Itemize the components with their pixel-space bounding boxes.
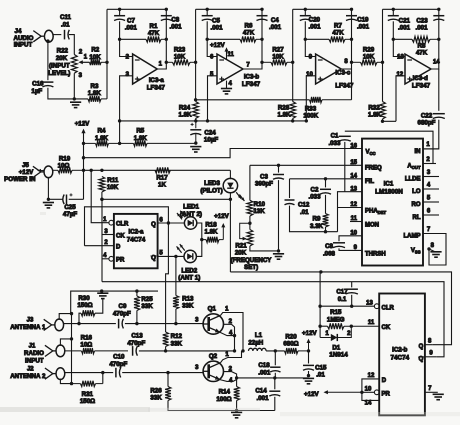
wire stage2 output jog <box>243 9 262 69</box>
jack J5 power in <box>33 166 53 178</box>
junction Q2 emitter <box>235 376 238 379</box>
wire PR pin10 <box>362 391 374 393</box>
wire to C25 <box>48 198 63 200</box>
junction PR bracket <box>360 391 363 394</box>
junction Q1e radio row <box>233 349 236 352</box>
junction +12V R4 <box>82 142 85 145</box>
svg-text:C7: C7 <box>127 18 135 25</box>
wire C11 to R22 top <box>69 35 74 55</box>
capacitor C18 <box>270 367 280 372</box>
stub pin 11 <box>350 221 362 223</box>
wire line-b PR to Qbar-b <box>102 282 444 357</box>
junction R25 top <box>135 289 138 292</box>
junction R33 row left <box>194 98 197 101</box>
wire pin5 to bias rail <box>208 76 218 121</box>
capacitor C4 <box>257 16 268 21</box>
svg-text:IC3-b: IC3-b <box>244 73 260 80</box>
wire R13 bottom <box>175 309 177 324</box>
capacitor C8 thrsh <box>333 243 345 248</box>
wire emitter row <box>237 377 309 379</box>
wire J3 sleeve <box>59 314 71 320</box>
svg-text:C1: C1 <box>331 133 339 140</box>
wire Q1 emitter stub2 <box>223 324 234 335</box>
svg-text:1.8K: 1.8K <box>204 229 218 236</box>
arrow into J5 <box>37 169 44 172</box>
wire Q1 collector <box>221 313 244 351</box>
svg-text:R10: R10 <box>254 201 266 208</box>
resistor R15 <box>328 323 380 329</box>
node stage1 output <box>165 61 168 64</box>
stub pin6 <box>423 214 439 216</box>
svg-text:11: 11 <box>351 216 358 222</box>
svg-text:680pF: 680pF <box>418 120 436 127</box>
wire stage3 output jog <box>341 9 351 69</box>
resistor R32 <box>380 102 386 120</box>
svg-text:10K: 10K <box>272 54 284 61</box>
svg-text:RO: RO <box>412 202 421 208</box>
capacitor C11 <box>65 30 70 40</box>
svg-text:C13: C13 <box>131 333 143 340</box>
svg-text:16: 16 <box>350 143 357 149</box>
svg-text:R29: R29 <box>363 47 375 54</box>
potentiometer R21 <box>247 230 253 247</box>
wire C16 to ground row <box>48 88 88 99</box>
junction network bottom <box>324 230 327 233</box>
junction collectors radio row <box>241 349 244 352</box>
wire stage3 feedback rail <box>305 38 329 40</box>
resistor R4 <box>84 141 120 147</box>
wire D feedback path <box>85 207 169 246</box>
svg-text:R31: R31 <box>82 391 94 398</box>
ground at IC1 pin 8 <box>429 249 435 252</box>
wire R33 row <box>196 99 310 101</box>
svg-text:1MEG: 1MEG <box>327 316 345 323</box>
power arrow +12V main <box>81 129 85 144</box>
svg-text:.033: .033 <box>308 194 321 201</box>
junction R26 top <box>166 371 169 374</box>
resistor R6 <box>240 36 262 42</box>
capacitor C13 <box>133 346 138 356</box>
wire pin3 to bias column <box>120 76 133 144</box>
svg-text:IC3-d: IC3-d <box>413 75 429 82</box>
junction J1 sleeve bus <box>70 337 73 340</box>
wire C20 to feedback rail <box>304 21 306 39</box>
resistor R28 <box>290 102 296 119</box>
wire R32 bottom jog <box>383 119 397 121</box>
wire C3 lower <box>278 180 280 251</box>
svg-text:R19: R19 <box>59 155 71 162</box>
node stage3 input <box>291 61 294 64</box>
svg-text:D: D <box>382 378 387 384</box>
svg-text:FREQ: FREQ <box>365 165 382 171</box>
wire ant2 row to Q2 <box>122 372 203 374</box>
junction pin8 Vss <box>427 247 430 250</box>
wire to pin9 <box>305 39 315 56</box>
svg-text:.001: .001 <box>308 24 321 31</box>
svg-text:R22: R22 <box>57 48 69 55</box>
svg-text:33K: 33K <box>182 303 194 310</box>
wire C2 to R9 <box>325 195 327 214</box>
svg-text:10K: 10K <box>107 184 119 191</box>
svg-text:15: 15 <box>350 160 357 166</box>
svg-text:PR: PR <box>382 392 391 398</box>
svg-text:1N914: 1N914 <box>329 352 348 359</box>
wire ground line <box>71 291 158 314</box>
svg-text:R1: R1 <box>150 23 158 30</box>
stub Q pin8 <box>425 344 433 346</box>
junction stage2 inverting node <box>206 38 209 41</box>
transistor Q1 <box>203 314 223 334</box>
svg-text:C22: C22 <box>421 113 433 120</box>
wire stage4 top rail <box>383 8 439 10</box>
wire radio row mid <box>139 350 235 352</box>
wire stage1 output jog <box>157 9 166 69</box>
svg-text:R27: R27 <box>272 47 284 54</box>
wire Q column to R12 <box>166 223 169 332</box>
junction R1 output end <box>165 38 168 41</box>
svg-text:R25: R25 <box>141 296 153 303</box>
wire stage1 feedback rail <box>120 38 146 40</box>
wire to pin13 <box>393 39 405 56</box>
wire CK-b row <box>320 325 327 327</box>
node stage4 input <box>381 61 384 64</box>
svg-text:47K: 47K <box>148 30 160 37</box>
svg-text:470pF: 470pF <box>113 311 131 318</box>
svg-text:13K: 13K <box>253 208 265 215</box>
stub pin3 <box>423 176 439 178</box>
svg-text:IC2-b: IC2-b <box>392 346 408 353</box>
wire line-a to Q8 wrap <box>230 272 451 345</box>
svg-text:R17: R17 <box>156 175 168 182</box>
svg-text:R4: R4 <box>98 128 106 135</box>
arrow +12V into PR line <box>324 390 362 394</box>
svg-text:Q1: Q1 <box>208 305 217 312</box>
wire C3 upper <box>278 165 280 172</box>
wire R14 to rail <box>236 401 238 411</box>
junction FIL C2 top <box>324 177 327 180</box>
wire R11 bottom <box>101 192 103 199</box>
svg-text:.001: .001 <box>125 25 138 32</box>
svg-text:10: 10 <box>306 72 313 78</box>
junction C19 top <box>350 8 353 11</box>
svg-text:(PILOT): (PILOT) <box>200 188 222 195</box>
wire R12 bottom <box>165 347 167 351</box>
svg-text:R23: R23 <box>174 47 186 54</box>
svg-text:R11: R11 <box>107 177 119 184</box>
LED2 ant1 <box>184 250 197 262</box>
svg-text:1.8K: 1.8K <box>368 112 382 119</box>
bubble CLR IC2-b <box>374 304 379 309</box>
junction line-a CLR network <box>319 270 322 273</box>
stub pin1 IN <box>423 148 439 150</box>
capacitor C7 <box>114 16 125 21</box>
wire C21 column upper <box>392 9 394 15</box>
junction bias rail C24 <box>194 119 197 122</box>
resistor R30 <box>81 310 95 316</box>
IC U2a 74C74 box <box>114 214 158 268</box>
resistor R31 <box>72 381 103 387</box>
svg-text:R2: R2 <box>91 47 99 54</box>
wire stage1 input column <box>106 9 108 99</box>
capacitor C8 <box>161 16 172 21</box>
ground bottom rail <box>231 412 242 417</box>
junction R6 output end <box>260 38 263 41</box>
svg-text:680Ω: 680Ω <box>283 341 298 348</box>
capacitor C25 polarized <box>63 193 73 204</box>
wire FREQ corner to R10 <box>249 165 251 200</box>
svg-text:1K: 1K <box>158 182 166 189</box>
svg-text:R26: R26 <box>150 387 162 394</box>
svg-text:R21: R21 <box>235 243 247 250</box>
junction LED R18 <box>200 238 203 241</box>
wire output to C22 <box>438 69 440 111</box>
svg-text:THRSH: THRSH <box>365 252 386 258</box>
svg-text:+12V: +12V <box>214 213 229 220</box>
wire Q1 emitter down <box>234 336 236 351</box>
svg-text:R5: R5 <box>136 128 144 135</box>
wire FREQ pin15 <box>250 164 362 166</box>
wire D pin2 <box>85 245 114 247</box>
svg-text:R30: R30 <box>78 295 90 302</box>
jack J3 antenna1 <box>44 319 64 331</box>
junction stage1 inverting node <box>118 38 121 41</box>
svg-text:CLR: CLR <box>382 306 395 312</box>
resistor R26 <box>165 387 171 401</box>
power arrow +12V R18 <box>221 223 225 240</box>
wire J4 sleeve to C16 <box>47 41 49 80</box>
capacitor C1 <box>339 136 351 141</box>
capacitor C12 <box>285 200 295 205</box>
wire C21 to feedback rail <box>392 21 394 39</box>
svg-text:150Ω: 150Ω <box>77 302 92 309</box>
wire ant1 row <box>64 323 116 325</box>
junction C18 top <box>274 349 277 352</box>
wire J1 sleeve <box>60 339 71 346</box>
op-amp IC3-a <box>133 54 158 84</box>
svg-text:J3: J3 <box>27 318 34 324</box>
wire Q2 emitter stub4 <box>220 380 237 382</box>
junction LED3 line-a <box>229 198 232 201</box>
svg-text:47K: 47K <box>243 30 255 37</box>
node stage2 input <box>194 61 197 64</box>
resistor R8 <box>412 36 439 42</box>
svg-text:100Ω: 100Ω <box>216 396 231 403</box>
wire R26 upper <box>167 373 169 387</box>
svg-text:13: 13 <box>366 300 373 306</box>
wire R26 to ground rail <box>168 401 275 411</box>
junction R14 ground rail <box>235 409 238 412</box>
wire C17 upper <box>351 282 353 288</box>
svg-text:Q: Q <box>151 222 156 228</box>
wire Q2 emitter down <box>236 378 238 387</box>
wire R30 left leg <box>79 313 81 323</box>
svg-text:74C74: 74C74 <box>127 236 146 243</box>
junction rail170 CLR drop <box>90 169 93 172</box>
wire pin10 to C8 <box>339 236 362 241</box>
capacitor C2 <box>320 189 331 194</box>
stub pin4 <box>423 188 439 190</box>
svg-text:C25: C25 <box>64 204 76 211</box>
junction C23 top <box>437 8 440 11</box>
svg-text:LO: LO <box>412 189 421 195</box>
ground under C15 <box>303 378 314 383</box>
wire Q1 emitter stub4 <box>220 332 235 335</box>
wire C17 lower <box>351 295 353 306</box>
junction Qbar R13 <box>174 255 177 258</box>
svg-text:Q2: Q2 <box>209 353 218 360</box>
wire C22 to IN pin <box>423 120 439 149</box>
wire C12 left column <box>289 179 291 198</box>
svg-text:MON: MON <box>365 223 379 229</box>
svg-text:LM1800N: LM1800N <box>375 189 403 196</box>
svg-text:C15: C15 <box>315 364 327 371</box>
svg-text:IC2-a: IC2-a <box>129 228 145 235</box>
wire CLR drop <box>91 170 109 222</box>
svg-text:C12: C12 <box>298 202 310 209</box>
wiper arrow R22 <box>78 60 89 64</box>
svg-text:PR: PR <box>116 258 125 264</box>
junction bias rail R28 <box>291 119 294 122</box>
wire R22 bottom to ground row <box>73 73 75 99</box>
wire C7 column upper <box>119 9 121 15</box>
svg-text:.001: .001 <box>415 25 428 32</box>
junction R12 radio row <box>164 349 167 352</box>
svg-text:10K: 10K <box>89 54 101 61</box>
wire sleeve bus <box>70 314 73 384</box>
jack J1 radio input <box>45 345 65 357</box>
resistor R14 <box>234 387 240 401</box>
resistor R29 <box>352 59 383 65</box>
svg-text:.001: .001 <box>169 24 182 31</box>
svg-text:+12V: +12V <box>210 42 225 49</box>
scan artifact bars <box>0 212 460 416</box>
LED1 ant2 <box>184 217 197 229</box>
wiper bracket R21 <box>240 223 250 240</box>
wire bias rail <box>120 120 307 122</box>
capacitor C22 <box>433 114 445 119</box>
LED3 pilot <box>223 178 237 193</box>
svg-text:13: 13 <box>397 55 404 61</box>
svg-text:R24: R24 <box>179 104 191 111</box>
svg-text:C11: C11 <box>60 14 72 21</box>
ground IC1 pin8 bars <box>430 252 441 257</box>
op-amp IC3-b <box>217 54 243 84</box>
junction Q1 emitter <box>233 334 236 337</box>
junction rail170 +12V <box>82 169 85 172</box>
svg-text:.01: .01 <box>61 22 70 29</box>
wire LED3 cathode <box>229 193 231 200</box>
svg-text:1.8K: 1.8K <box>277 112 291 119</box>
capacitor C15 <box>303 365 314 370</box>
svg-text:PHADET: PHADET <box>365 209 386 216</box>
svg-text:1.8K: 1.8K <box>134 135 148 142</box>
wire R11-LED3 line <box>102 198 231 200</box>
resistor R24 <box>193 102 199 119</box>
capacitor C19 <box>346 16 357 21</box>
junction J2 sleeve bus <box>70 382 73 385</box>
wire ant1 row to Q1 <box>125 323 203 325</box>
power arrow +12V IC3-b pin 11 <box>225 47 229 59</box>
svg-text:C24: C24 <box>204 129 216 136</box>
svg-text:R8: R8 <box>418 42 426 49</box>
junction bias rail pin10 <box>305 119 308 122</box>
wire R24 to bias rail <box>195 119 197 121</box>
junction J3 sleeve bus <box>70 312 73 315</box>
svg-text:.001: .001 <box>398 25 411 32</box>
capacitor C20 <box>300 16 311 21</box>
svg-text:RADIO: RADIO <box>24 350 44 357</box>
wire to pin2 <box>120 39 133 56</box>
svg-text:LED2: LED2 <box>181 267 197 274</box>
capacitor C10 <box>116 368 121 378</box>
wire pin14 FIL <box>290 178 363 180</box>
svg-text:IC1: IC1 <box>384 180 394 187</box>
wire pin13 net <box>338 192 363 232</box>
capacitor C5 <box>202 16 213 21</box>
svg-text:FIL: FIL <box>365 179 374 185</box>
bubble CLR IC2-a <box>109 220 114 225</box>
svg-text:10Ω: 10Ω <box>58 162 70 169</box>
wire J2 sleeve <box>60 379 71 384</box>
wire R21 bottom <box>250 246 279 251</box>
wire C20 column upper <box>304 9 306 15</box>
wire Q2 emitter stub2 <box>223 372 236 378</box>
svg-text:R12: R12 <box>171 333 183 340</box>
svg-text:C8: C8 <box>325 243 333 250</box>
svg-text:.001: .001 <box>269 24 282 31</box>
svg-text:R33: R33 <box>305 105 317 112</box>
svg-text:R16: R16 <box>81 334 93 341</box>
wire J4 tip to C11 <box>53 34 61 36</box>
svg-text:R14: R14 <box>219 389 231 396</box>
junction R13 ant1 row <box>174 322 177 325</box>
svg-text:LF347: LF347 <box>412 83 431 90</box>
junction R30 left <box>77 322 80 325</box>
svg-text:J2: J2 <box>27 367 34 373</box>
ground IC3-b pin4 <box>221 89 232 94</box>
svg-text:VSS: VSS <box>411 248 421 255</box>
svg-text:INPUT: INPUT <box>14 42 33 49</box>
svg-text:470pF: 470pF <box>127 340 145 347</box>
wire L1 to C18 <box>266 350 284 352</box>
svg-text:33K: 33K <box>171 340 183 347</box>
svg-text:10K: 10K <box>174 54 186 61</box>
svg-text:+12V: +12V <box>304 391 319 398</box>
wire pin14 bracket <box>362 392 379 400</box>
junction R22 ground <box>73 97 76 100</box>
svg-text:(INPUT: (INPUT <box>49 62 70 69</box>
wire pin10 to bias rail <box>306 76 315 121</box>
resistor R16 <box>65 348 128 354</box>
ground under R22 <box>70 102 81 107</box>
junction C20 top <box>304 8 307 11</box>
junction C21 top <box>392 8 395 11</box>
svg-text:L1: L1 <box>255 332 263 339</box>
svg-text:C21: C21 <box>399 18 411 25</box>
resistor R25 <box>134 296 140 311</box>
svg-text:POWER IN: POWER IN <box>4 176 36 183</box>
wire stage2 top rail <box>196 8 262 10</box>
svg-text:D1: D1 <box>332 344 340 351</box>
wire C5 column upper <box>206 9 208 15</box>
jack J4 audio input <box>33 30 53 42</box>
junction R15 left <box>318 325 321 328</box>
svg-text:12: 12 <box>368 373 375 379</box>
wire pin12 jog <box>396 76 405 122</box>
stub pin5 <box>423 201 439 203</box>
wire stage3 output to R33 <box>351 69 353 100</box>
svg-text:10µF: 10µF <box>204 137 218 144</box>
